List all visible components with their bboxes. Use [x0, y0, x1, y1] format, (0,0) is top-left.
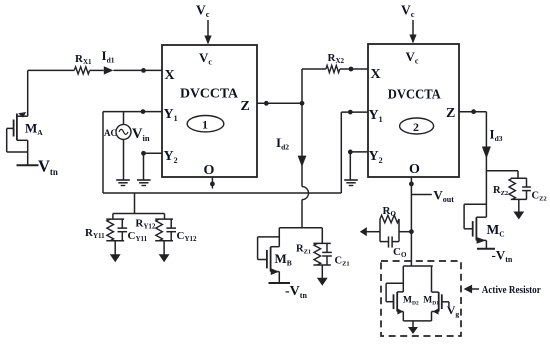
- wire source bar of MD pair: [403, 321, 431, 327]
- -Vtn label at MB: [285, 284, 307, 300]
- U2 pin label Y1: [369, 108, 383, 124]
- O stub of U1: [210, 177, 215, 189]
- MC label: [487, 222, 505, 239]
- RY12 label: [135, 218, 156, 231]
- U1 pin label Y2: [164, 149, 178, 165]
- wire Y1 of U2: [341, 110, 368, 193]
- Vc label above U1: [196, 3, 210, 20]
- -Vtn bar under MC: [477, 248, 495, 250]
- node O2 junction: [409, 229, 414, 234]
- U2 pin label Z: [446, 106, 455, 121]
- U1 pin label Y1: [164, 107, 178, 123]
- current arrow Id1: [104, 66, 162, 74]
- resistor RO and capacitor CO parallel: [366, 215, 412, 247]
- U1 pin label Z: [241, 99, 250, 114]
- active resistor pointer arrow: [464, 285, 479, 294]
- op-block U2 DVCCTA box: [368, 44, 459, 177]
- Vtn label: [38, 157, 58, 177]
- resistor RY12 and capacitor CY12 parallel: [155, 219, 176, 254]
- U2 control arrow Vc: [409, 20, 416, 44]
- node X1 junction: [141, 68, 146, 73]
- Id3 label: [490, 127, 503, 144]
- active resistor dashed box: [381, 261, 461, 336]
- AC label: [104, 128, 117, 138]
- U2 pin label X: [371, 67, 381, 82]
- current arrow Id3: [482, 147, 491, 159]
- U2 pin label Y2: [369, 149, 383, 165]
- U2 pin label O: [409, 162, 420, 177]
- Vin label: [132, 126, 150, 143]
- wire Z of U1: [257, 101, 302, 106]
- MB label: [275, 251, 292, 268]
- CY11 label: [128, 230, 148, 243]
- svg-text:Z: Z: [241, 99, 250, 114]
- wire top bar of MD pair: [403, 265, 433, 267]
- svg-text:2: 2: [413, 120, 419, 134]
- U1 pin label O: [204, 163, 215, 178]
- U1 label DVCCTA: [180, 87, 239, 102]
- transistor MD2 (diode-connected NMOS): [386, 266, 403, 321]
- op-block U1 DVCCTA box: [162, 45, 257, 177]
- ground under Y2 of U2: [344, 180, 358, 186]
- MD1 label: [423, 296, 439, 307]
- Vout label: [433, 188, 454, 205]
- RX2 label: [328, 52, 345, 65]
- resistor RX1: [28, 67, 104, 74]
- node X2 junction: [349, 67, 354, 72]
- wire branch to RZ2: [486, 171, 518, 178]
- CZ1 label: [335, 256, 350, 268]
- svg-text:Active Resistor: Active Resistor: [482, 284, 541, 296]
- U1 pin label Vc: [199, 50, 212, 67]
- resistor RZ1 and capacitor CZ1 parallel: [313, 228, 331, 278]
- transistor MC (diode-connected NMOS): [464, 204, 486, 248]
- svg-text:X: X: [371, 67, 381, 82]
- wire riser to RX2: [302, 69, 326, 103]
- wire bus Y1 common: [103, 192, 341, 194]
- AC source Vin: [116, 112, 131, 180]
- Id1 label: [102, 48, 115, 65]
- current arrow Id2: [298, 156, 307, 167]
- wire Y2 of U2: [348, 150, 368, 180]
- transistor MD1 (NMOS, gate to Vg): [432, 266, 449, 321]
- -Vtn bar under MB: [269, 282, 291, 284]
- Active Resistor label: [482, 284, 541, 296]
- wire O of U2 down: [409, 177, 414, 266]
- wire from bus to RC loads: [113, 193, 165, 219]
- transistor MA (diode-connected NMOS): [7, 70, 28, 165]
- node on Y1 wire: [141, 109, 146, 114]
- Id2 label: [276, 135, 289, 152]
- MD pair ground arrow: [408, 327, 418, 334]
- U2 label DVCCTA: [388, 88, 442, 103]
- -Vtn label at MC: [492, 248, 513, 265]
- Vc label above U2: [401, 3, 415, 20]
- U1 pin label X: [165, 68, 175, 83]
- Vtn supply bar under MA: [17, 164, 39, 166]
- wire Y1 of U1: [103, 111, 162, 113]
- MD2 label: [403, 296, 419, 307]
- U2 pin label Vc: [406, 49, 419, 66]
- svg-text:1: 1: [202, 118, 208, 132]
- MA label: [25, 121, 43, 138]
- CO label: [393, 246, 407, 259]
- RY11 ground arrow: [110, 254, 121, 262]
- RO label: [383, 205, 397, 218]
- transistor MB (diode-connected NMOS): [258, 228, 280, 283]
- svg-text:O: O: [409, 162, 420, 177]
- resistor RY11 and capacitor CY11 parallel: [106, 219, 127, 254]
- wire left rail down to bus: [102, 112, 104, 193]
- CZ1 ground arrow: [317, 278, 328, 286]
- svg-text:X: X: [165, 68, 175, 83]
- ground under AC source: [116, 180, 130, 186]
- output terminal arrow left: [360, 227, 367, 236]
- wire Y2 of U1: [141, 151, 162, 180]
- RY12 ground arrow: [159, 254, 170, 262]
- ground under Y2 wire: [137, 180, 151, 186]
- wire Z of U2: [459, 109, 486, 217]
- resistor RX2: [326, 65, 368, 72]
- CZ2 label: [532, 191, 547, 203]
- Vout stub: [411, 194, 431, 196]
- svg-text:AC: AC: [104, 128, 117, 138]
- node Z1-X2 junction: [300, 101, 305, 106]
- wire Id2 node bar: [279, 227, 322, 229]
- svg-text:DVCCTA: DVCCTA: [180, 87, 239, 102]
- U1 control arrow Vc: [204, 20, 211, 45]
- CZ2 ground arrow: [513, 212, 524, 220]
- resistor RZ2 and capacitor CZ2 parallel: [509, 178, 531, 212]
- svg-text:DVCCTA: DVCCTA: [388, 88, 442, 103]
- CY12 label: [177, 230, 198, 243]
- RZ1 label: [296, 244, 311, 256]
- U1 number ellipse 1: [187, 116, 224, 132]
- svg-text:Z: Z: [446, 106, 455, 121]
- RZ2 label: [493, 185, 508, 197]
- wire Id2 with hop over bus: [302, 103, 309, 228]
- Vg label: [447, 303, 460, 318]
- svg-text:O: O: [204, 163, 215, 178]
- RX1 label: [75, 53, 92, 66]
- RY11 label: [85, 227, 105, 240]
- U2 number ellipse 2: [400, 118, 434, 134]
